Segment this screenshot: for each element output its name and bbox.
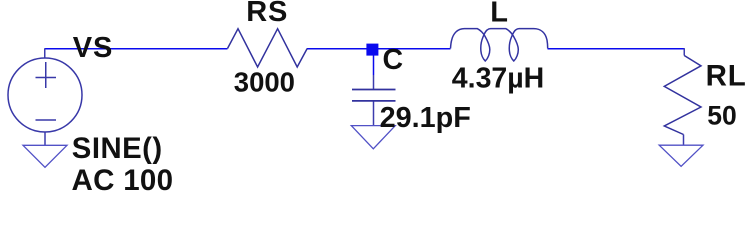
svg-text:SINE(): SINE() (72, 132, 163, 165)
svg-text:L: L (490, 0, 508, 29)
svg-text:VS: VS (73, 32, 113, 64)
svg-text:50: 50 (707, 100, 736, 130)
svg-text:29.1pF: 29.1pF (380, 102, 471, 134)
svg-text:AC 100: AC 100 (72, 164, 174, 192)
svg-text:RS: RS (246, 0, 288, 28)
svg-text:3000: 3000 (234, 67, 295, 98)
svg-text:4.37µH: 4.37µH (452, 63, 544, 95)
svg-text:C: C (383, 44, 404, 76)
svg-text:RL: RL (706, 59, 747, 92)
